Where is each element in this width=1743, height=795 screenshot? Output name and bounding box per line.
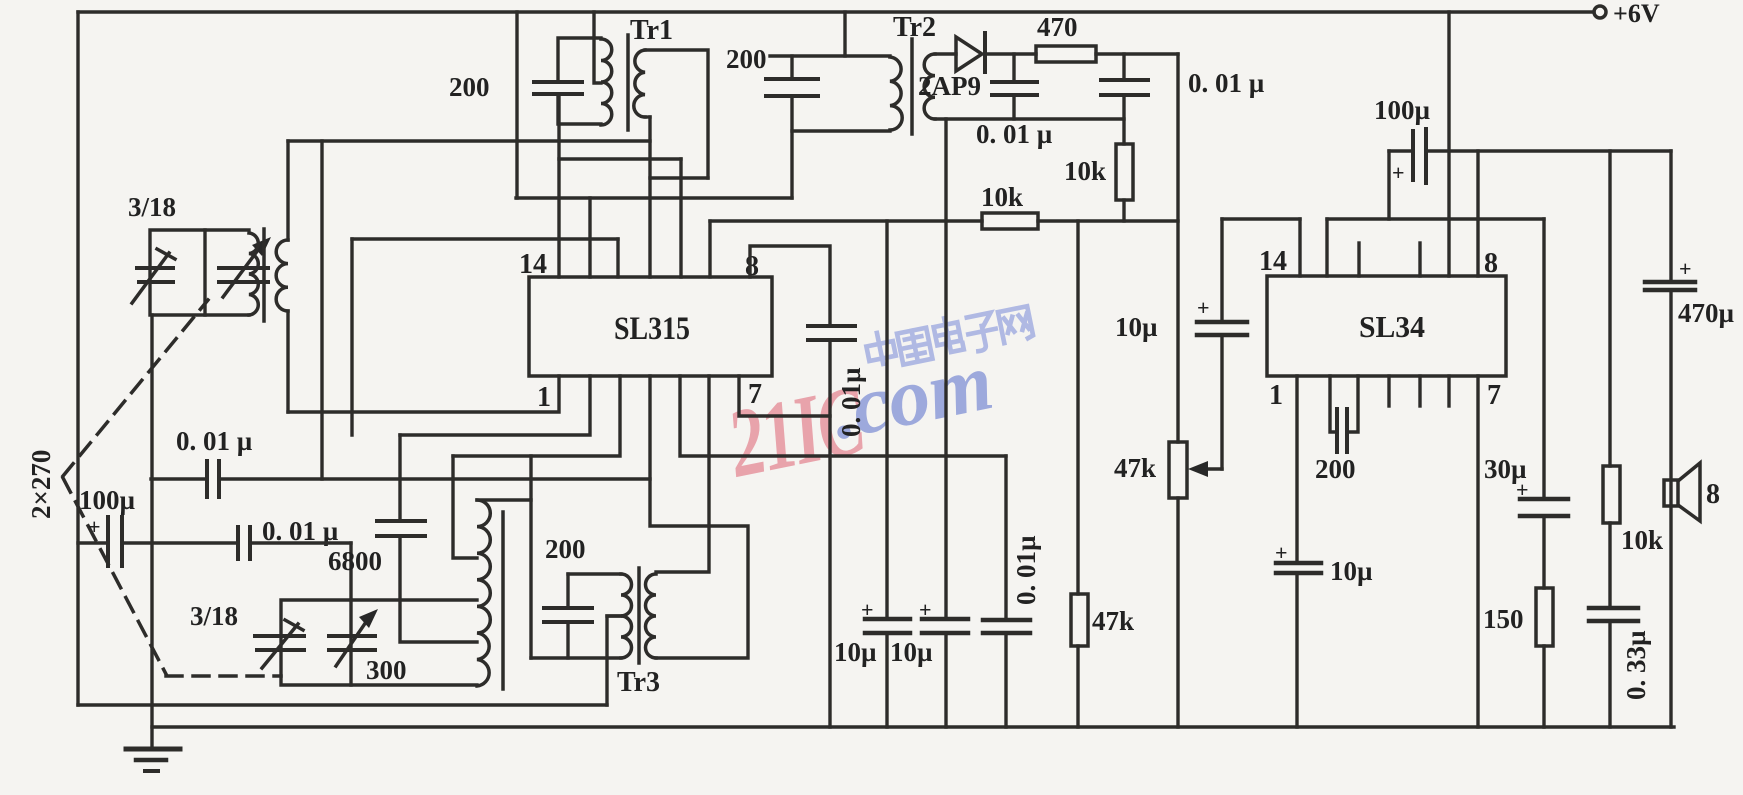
svg-text:200: 200 <box>545 534 586 564</box>
Tr1 primary winding <box>601 39 612 125</box>
wire 221 AGC <box>710 219 982 222</box>
svg-text:200: 200 <box>726 44 767 74</box>
svg-text:470µ: 470µ <box>1678 298 1735 328</box>
svg-text:0. 33µ: 0. 33µ <box>1621 630 1651 700</box>
dashed gang link lower arm <box>63 478 166 674</box>
wire 239 <box>352 237 618 240</box>
svg-text:3/18: 3/18 <box>128 192 176 222</box>
svg-text:0. 01 µ: 0. 01 µ <box>176 426 253 456</box>
svg-text:10µ: 10µ <box>1330 556 1373 586</box>
Tr2 secondary top lead <box>935 52 956 55</box>
Tr2 secondary bottom wire <box>935 117 1124 120</box>
svg-text:8: 8 <box>1484 248 1498 279</box>
svg-text:Tr2: Tr2 <box>893 12 936 43</box>
wire 159 <box>559 157 681 160</box>
wire 479 to mixer pin bus <box>219 477 650 480</box>
Tr2 primary winding <box>890 57 902 130</box>
oscillator coil core <box>501 512 505 689</box>
svg-text:0. 01 µ: 0. 01 µ <box>976 119 1053 149</box>
Tr2 primary top lead <box>770 54 890 57</box>
wire down to osc gang <box>349 543 352 600</box>
svg-text:1: 1 <box>537 382 551 413</box>
wire 219b <box>1327 217 1544 220</box>
v517 from rail <box>515 12 518 198</box>
pin7 column <box>1476 376 1479 727</box>
bottom wire 2 (ground bus) <box>152 725 1674 728</box>
pin1 stub and wire 412 <box>288 376 559 412</box>
capacitor 0.01u at pin8 <box>808 324 855 328</box>
svg-text:10k: 10k <box>981 182 1023 212</box>
svg-text:10µ: 10µ <box>890 637 933 667</box>
svg-text:14: 14 <box>519 249 547 280</box>
svg-text:+: + <box>1197 295 1210 320</box>
pin8 riser loop <box>750 246 830 326</box>
svg-text:200: 200 <box>449 72 490 102</box>
Tr1 tap from +6V rail <box>594 12 601 83</box>
Tr3 primary top lead <box>568 572 621 575</box>
stub 1359 <box>1357 243 1360 276</box>
svg-text:+: + <box>1392 160 1405 185</box>
Tr2 feed from +6V rail <box>843 12 846 56</box>
Tr1 secondary top lead <box>645 50 708 178</box>
Tr1 core <box>626 35 630 130</box>
Tr2 secondary winding <box>924 54 935 119</box>
trimmer cap C-ant-b <box>219 266 268 270</box>
svg-text:150: 150 <box>1483 604 1524 634</box>
svg-text:SL34: SL34 <box>1359 309 1425 344</box>
pin1 column <box>1295 376 1298 563</box>
Tr2 primary bottom lead <box>792 129 890 132</box>
svg-text:200: 200 <box>1315 454 1356 484</box>
v1178 from detector out <box>1176 54 1179 442</box>
pin2 stub and wire 435 <box>400 376 590 435</box>
pin12 riser <box>616 239 619 277</box>
Tr3 primary bottom lead <box>531 656 621 659</box>
watermark 21IC.com + chinese <box>718 302 1034 499</box>
svg-text:8: 8 <box>745 251 759 282</box>
svg-text:6800: 6800 <box>328 546 382 576</box>
trimmer cap C-osc-a <box>255 634 304 638</box>
Tr1 secondary bottom lead <box>645 115 650 118</box>
pin7 stub wire <box>739 376 830 416</box>
Tr3 secondary winding <box>646 574 657 658</box>
svg-text:Tr3: Tr3 <box>617 667 660 698</box>
bottom stubs <box>1387 376 1390 406</box>
osc coil tap lead to pin3 wire <box>453 456 477 558</box>
wire 219 pin14 <box>1222 217 1300 220</box>
wire v531 to Tr3 cap bottom <box>529 500 532 658</box>
svg-text:100µ: 100µ <box>1374 95 1431 125</box>
pin11 column <box>648 117 651 277</box>
svg-text:+6V: +6V <box>1613 0 1660 28</box>
osc coil lower tap via 6800 <box>400 538 477 642</box>
antenna coil primary winding <box>249 233 258 315</box>
wire 219c down to 30u <box>1542 219 1545 499</box>
svg-text:Tr1: Tr1 <box>630 15 673 46</box>
svg-text:SL315: SL315 <box>614 311 690 347</box>
Tr1 primary loop <box>558 38 601 82</box>
trimmer cap C-osc-b <box>329 634 375 638</box>
pin10 riser <box>679 159 682 277</box>
Tr3 primary winding <box>621 574 632 658</box>
Tr2 core <box>910 39 914 134</box>
pot wiper arrow <box>1206 467 1222 470</box>
svg-text:3/18: 3/18 <box>190 601 238 631</box>
svg-text:10µ: 10µ <box>1115 312 1158 342</box>
dashed gang link horizontal <box>166 674 281 678</box>
wire node 322 drop <box>320 141 323 479</box>
wire 141 antenna bus <box>288 139 650 142</box>
link v352 <box>350 239 353 435</box>
svg-text:300: 300 <box>366 655 407 685</box>
Tr2 cap bottom to wire198 <box>790 96 793 198</box>
svg-text:14: 14 <box>1259 246 1287 277</box>
svg-text:2AP9: 2AP9 <box>918 71 981 101</box>
v946 from Tr2 secondary <box>944 119 947 619</box>
wire: secondary top to node <box>286 141 289 240</box>
svg-text:0. 01µ: 0. 01µ <box>836 367 866 437</box>
oscillator coil winding <box>477 500 490 686</box>
wire: secondary bottom to pin1 bus <box>286 311 289 412</box>
svg-text:7: 7 <box>748 379 762 410</box>
dashed gang link upper arm <box>63 300 208 476</box>
v830 column <box>828 340 831 727</box>
svg-text:0. 01µ: 0. 01µ <box>1011 535 1041 605</box>
+6V terminal <box>1594 6 1606 18</box>
svg-text:10k: 10k <box>1621 525 1663 555</box>
pin8 riser <box>1476 151 1479 276</box>
pin13 riser <box>588 198 591 277</box>
stub 1420 <box>1418 243 1421 276</box>
riser 1327 <box>1325 219 1328 276</box>
top border +6V rail <box>78 10 1594 13</box>
antenna coil core <box>262 229 266 321</box>
pin5 column and wire 456b <box>680 376 1006 456</box>
+6V column to SL34 <box>1447 12 1450 276</box>
svg-text:470: 470 <box>1037 12 1078 42</box>
pin4 column to Tr3 secondary bottom <box>650 376 748 658</box>
svg-text:1: 1 <box>1269 380 1283 411</box>
v887 from AGC wire <box>885 221 888 619</box>
wire 198 <box>516 196 792 199</box>
ground <box>150 315 153 749</box>
Tr3 core <box>637 568 641 663</box>
svg-text:10µ: 10µ <box>834 637 877 667</box>
IC SL315 <box>529 277 772 376</box>
Tr1 secondary winding <box>634 50 645 117</box>
wire 178 <box>650 176 708 179</box>
svg-text:100µ: 100µ <box>79 485 136 515</box>
pin14 riser <box>1298 219 1301 276</box>
svg-text:47k: 47k <box>1114 453 1156 483</box>
svg-text:8: 8 <box>1706 479 1720 510</box>
IC SL34 <box>1267 276 1506 376</box>
Tr3 tap lead <box>607 614 621 617</box>
pin9 riser <box>708 221 711 277</box>
riser 1389 <box>1387 151 1390 219</box>
svg-text:10k: 10k <box>1064 156 1106 186</box>
pin14 column <box>557 94 560 277</box>
svg-text:7: 7 <box>1487 380 1501 411</box>
wire riser to Tr3 tap <box>607 616 621 705</box>
antenna coil secondary winding <box>276 240 288 311</box>
pin3 stub and wire 456 <box>453 376 620 456</box>
bottom wire 1 <box>78 703 607 706</box>
trimmer cap C-ant-a <box>137 266 173 270</box>
svg-text:2×270: 2×270 <box>26 450 56 519</box>
pin6 column to Tr3 secondary top <box>656 376 709 572</box>
svg-text:0. 01 µ: 0. 01 µ <box>1188 68 1265 98</box>
svg-text:+: + <box>88 514 101 539</box>
osc coil top lead <box>477 456 531 500</box>
left border wire <box>76 12 79 705</box>
wire 151 <box>1426 149 1671 152</box>
svg-text:47k: 47k <box>1092 606 1134 636</box>
svg-text:+: + <box>1679 256 1692 281</box>
